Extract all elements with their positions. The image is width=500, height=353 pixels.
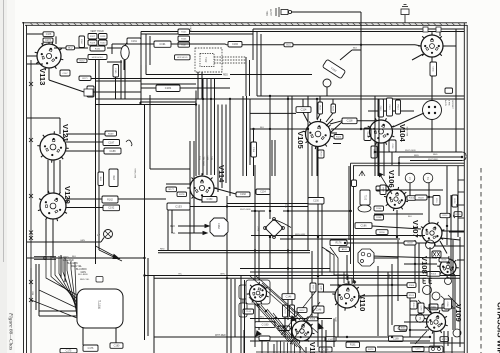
tube socket V101	[418, 32, 446, 60]
tube socket V109	[424, 304, 463, 334]
svg-text:1: 1	[409, 177, 411, 181]
svg-text:T102: T102	[204, 57, 206, 63]
wire v121 to C188	[66, 150, 104, 152]
resistor vert RED	[109, 169, 118, 187]
svg-text:BLU: BLU	[212, 155, 214, 160]
junction ticks left bus more	[29, 82, 33, 302]
svg-text:3: 3	[419, 317, 421, 321]
svg-text:R123: R123	[336, 137, 342, 139]
wire BLK y129 right	[331, 128, 464, 130]
junction dot x361 y44	[360, 44, 362, 46]
control R128 vert hold b	[99, 34, 108, 40]
vert box C157	[442, 304, 449, 311]
resistor R168b	[278, 326, 290, 331]
diagonals v109 area	[418, 300, 432, 314]
wire v104 to plug	[393, 113, 424, 127]
svg-text:C153: C153	[175, 204, 182, 208]
resistor R123	[334, 135, 343, 140]
svg-text:BLK-BRN: BLK-BRN	[78, 274, 88, 276]
resistor small x352	[352, 180, 357, 187]
wire left bus x31	[30, 60, 32, 353]
component A102	[339, 247, 350, 252]
control R107	[178, 42, 190, 47]
svg-text:R157: R157	[300, 310, 306, 312]
wire bundle x211	[210, 78, 212, 175]
wire x375 vert	[374, 96, 376, 176]
svg-text:V106: V106	[387, 170, 396, 188]
svg-text:C161: C161	[131, 40, 137, 43]
svg-text:V105: V105	[296, 131, 305, 150]
resistor vert BLU	[98, 172, 104, 186]
wire x243 vert	[242, 96, 244, 176]
L-bend wires left of V110	[322, 247, 344, 283]
svg-text:C162: C162	[240, 193, 246, 196]
label BLU mid	[284, 43, 293, 47]
wire x415 vert	[414, 240, 416, 283]
svg-text:V113: V113	[38, 68, 47, 85]
wire v104 down b	[383, 143, 385, 176]
capacitor C190	[255, 322, 275, 328]
wire v114 right	[214, 188, 236, 194]
wire x275 pair b	[274, 140, 276, 176]
svg-text:T-104: T-104	[97, 300, 101, 309]
component R173	[366, 347, 376, 352]
svg-text:BLU: BLU	[260, 317, 265, 319]
capacitor C14x vert	[364, 128, 371, 141]
wire y81 upper left	[96, 80, 142, 82]
terminal B+ top	[401, 5, 409, 23]
capacitor C147	[325, 337, 336, 342]
wire v106 down	[396, 210, 398, 237]
top-left corner routing	[140, 32, 142, 66]
svg-text:C169: C169	[393, 338, 399, 341]
svg-text:R159: R159	[412, 303, 414, 308]
transformer T-104	[77, 289, 123, 328]
wire y308 right	[420, 307, 455, 309]
arrow wire v106 pin	[379, 173, 392, 194]
wire c185 down	[115, 77, 117, 99]
wire rect x231	[230, 279, 232, 353]
tube socket V110	[332, 281, 367, 311]
svg-text:RED-YEL: RED-YEL	[80, 279, 90, 281]
svg-text:V121: V121	[61, 124, 70, 143]
wire trunk x292	[291, 140, 293, 310]
wire rect top y102	[140, 101, 196, 103]
svg-text:LIGHT: LIGHT	[270, 8, 273, 16]
capacitor C175	[60, 349, 77, 353]
capacitor C148	[313, 306, 324, 313]
svg-text:R176: R176	[336, 242, 343, 245]
wire y311 t104	[39, 310, 77, 312]
svg-text:BLU: BLU	[389, 273, 391, 278]
wire y268	[240, 268, 330, 270]
wire y256	[372, 256, 437, 258]
wire v121 to R169	[66, 133, 105, 135]
junction box right top	[445, 88, 453, 93]
small box v112 low	[259, 336, 270, 341]
svg-text:RED: RED	[112, 175, 114, 180]
wire x447 vert	[446, 166, 448, 245]
wire trunk x322	[321, 203, 323, 276]
resistor R122 vert	[331, 104, 336, 113]
control R131	[90, 46, 105, 51]
wire bundle x207	[206, 78, 208, 175]
svg-text:R153: R153	[431, 274, 437, 276]
wire y315 right	[410, 314, 429, 316]
wire WHT-GRN y211	[251, 210, 265, 212]
svg-text:C163: C163	[217, 223, 220, 229]
capacitor C185	[113, 65, 119, 78]
wire octagon right	[374, 257, 398, 259]
wire x460 vert	[459, 237, 461, 347]
top bus wire 2	[141, 31, 464, 33]
wire x388	[387, 272, 389, 336]
svg-text:R132: R132	[80, 60, 86, 62]
svg-text:R140: R140	[396, 105, 398, 111]
svg-text:WHT-GRN: WHT-GRN	[240, 209, 251, 211]
wire controls right2	[107, 47, 122, 49]
wire y203 parallel	[227, 203, 308, 205]
wire v113 drop a	[95, 60, 97, 105]
wire y341	[250, 340, 430, 342]
blob component below T103	[358, 205, 371, 212]
resistor R176	[330, 240, 347, 246]
wire y330 right	[410, 329, 429, 331]
wire plug down	[431, 120, 433, 153]
component C164	[394, 326, 407, 332]
svg-text:V120: V120	[63, 186, 72, 204]
wire C182 right	[180, 87, 230, 89]
diagonal bundle to V111	[249, 291, 320, 352]
bus wire y99 long	[96, 98, 465, 100]
right border frame	[463, 23, 465, 353]
resistor R138	[439, 258, 449, 262]
wire y232 right	[449, 231, 464, 233]
tube socket V108	[420, 256, 459, 278]
svg-text:C191: C191	[159, 42, 166, 46]
wire v113 pin up b	[55, 36, 57, 44]
test point circle a	[426, 240, 435, 249]
svg-text:GRN: GRN	[336, 317, 338, 322]
svg-text:C118: C118	[347, 120, 353, 123]
vert box C151	[433, 196, 440, 206]
resistor R166	[228, 42, 242, 48]
capacitor C166	[319, 347, 332, 352]
wire v101 top drop	[439, 32, 441, 37]
svg-text:WHT-BLU: WHT-BLU	[135, 168, 137, 178]
test point circle v109 left	[416, 314, 425, 323]
svg-text:WHT: WHT	[258, 225, 260, 231]
tube socket V120	[38, 186, 72, 221]
wire v121 pin a down	[47, 160, 49, 193]
wire y285 r164	[330, 284, 407, 286]
svg-text:C148: C148	[316, 309, 322, 311]
svg-text:A102: A102	[342, 248, 348, 251]
wire v105 arrow ne	[326, 119, 333, 126]
junction dots round2	[143, 98, 448, 331]
wire y260 right	[457, 259, 464, 261]
vert box C158	[444, 299, 452, 309]
resistor R148	[374, 215, 384, 220]
transformer T102 dashed inner	[200, 54, 214, 67]
capacitor C153	[167, 203, 190, 210]
wire red arrow	[178, 225, 208, 227]
wire v113 pin up a	[42, 42, 44, 44]
wire x172 below c153	[171, 210, 173, 233]
wire BLK long	[27, 257, 144, 259]
svg-text:BRN: BRN	[414, 155, 419, 157]
wire y347 right	[377, 346, 440, 348]
resistor R157	[297, 308, 307, 313]
wire rect x235	[234, 279, 236, 337]
wire C182 left	[141, 87, 156, 89]
sub-chassis box left side	[350, 163, 352, 264]
control HOR HOLD	[88, 55, 107, 60]
svg-text:C188: C188	[110, 150, 117, 153]
svg-text:C185: C185	[114, 68, 116, 74]
pilot lamp LP	[104, 230, 113, 239]
outline bottom RED	[146, 74, 222, 76]
wire r121 to socket	[317, 114, 320, 120]
vert box R167	[310, 283, 316, 292]
pin box v104 b	[389, 140, 396, 152]
capacitor C186	[355, 223, 372, 229]
resistor R145	[376, 186, 389, 191]
plug 4-pin molded socket	[423, 101, 442, 120]
transformer T102 dashed outer	[195, 48, 222, 72]
capacitor C168	[43, 32, 54, 37]
capacitor C188	[104, 148, 121, 154]
control R106	[178, 36, 190, 41]
bus double y275	[145, 275, 461, 277]
wire dial light horizontal	[291, 11, 361, 13]
svg-text:BRN-GRN: BRN-GRN	[295, 234, 306, 236]
wire v107 to v108	[440, 241, 447, 254]
wire h y169	[150, 168, 190, 170]
wire v113 to border	[27, 55, 37, 57]
wire v121 pin c down	[59, 160, 61, 193]
x marks in shield	[433, 252, 436, 257]
junction dots main	[143, 95, 431, 338]
label BLU wire	[66, 46, 75, 50]
wire y239 parallel	[280, 238, 400, 240]
svg-text:C145: C145	[319, 286, 321, 291]
wire x334	[333, 319, 335, 348]
resistor R150	[407, 196, 416, 201]
wire left x36	[35, 264, 37, 310]
wire v110 up	[346, 255, 348, 280]
wire v105 top to bus	[316, 99, 318, 119]
wire bundle x218	[217, 105, 219, 193]
wire c156 down	[253, 157, 255, 176]
svg-text:BLU: BLU	[286, 45, 291, 47]
wire x292 up	[291, 96, 293, 140]
tube socket V107	[411, 220, 444, 245]
wire v114 left a	[166, 183, 190, 185]
svg-text:R105: R105	[181, 32, 187, 34]
svg-text:BLK: BLK	[353, 48, 358, 50]
svg-text:R150: R150	[409, 198, 415, 200]
wire curve from diamond	[274, 220, 291, 228]
wire x190 low	[189, 180, 191, 251]
resistor R149	[415, 195, 427, 200]
component R161	[346, 342, 360, 348]
svg-text:R129: R129	[90, 42, 96, 44]
svg-text:C156: C156	[252, 147, 254, 153]
shield box with X	[432, 251, 441, 258]
wire rect x227	[226, 196, 228, 353]
svg-text:R173: R173	[368, 349, 374, 351]
svg-text:C175: C175	[66, 350, 72, 353]
capacitor C182	[156, 85, 180, 92]
wire v104 down	[377, 143, 379, 176]
control HOR HOLD 2	[175, 55, 191, 60]
resistor R132	[77, 59, 87, 63]
wire left bus y118	[27, 117, 60, 119]
wire x392	[391, 264, 393, 325]
svg-text:C150: C150	[207, 198, 213, 201]
wire GRN lamp	[27, 241, 101, 243]
outline bottom cont	[230, 74, 312, 76]
pin circle no2	[423, 173, 433, 183]
wire x458 right col	[457, 166, 459, 237]
wire BLU to tube top right	[293, 44, 415, 46]
wire y96 bus	[257, 95, 464, 97]
svg-text:R156: R156	[379, 232, 385, 234]
svg-text:R131: R131	[95, 48, 101, 50]
wire y198 mid	[118, 198, 166, 200]
wire trunk x318	[317, 147, 319, 347]
wire y78 upper left	[91, 78, 196, 80]
svg-text:R127: R127	[90, 36, 96, 38]
wire r124 left	[333, 143, 341, 145]
wire zigzag to R166	[222, 43, 228, 46]
wire y243 r176	[347, 242, 426, 244]
svg-text:V108: V108	[420, 256, 429, 274]
capacitor C162	[236, 192, 250, 197]
svg-text:C119: C119	[379, 106, 381, 112]
tube socket V113	[35, 42, 64, 86]
wire f102 up	[340, 50, 352, 60]
svg-text:R146: R146	[376, 208, 382, 210]
wire v107 to border b	[441, 238, 460, 240]
svg-text:WHT-RED: WHT-RED	[215, 335, 226, 337]
svg-text:R130: R130	[100, 42, 106, 44]
svg-text:Figure 66—Chas: Figure 66—Chas	[8, 312, 14, 350]
wire f102 h	[352, 49, 361, 51]
vert box R147b	[380, 185, 386, 195]
test point circle b	[423, 286, 432, 295]
junction box lower V113	[84, 89, 93, 96]
bus RED y157	[399, 156, 462, 158]
svg-text:HOR HOLD: HOR HOLD	[177, 57, 188, 59]
wire rect x148	[147, 258, 149, 336]
resistor R121 vert	[318, 102, 323, 114]
svg-text:CHASSIS WIRI: CHASSIS WIRI	[496, 302, 500, 353]
vert box R170	[283, 305, 288, 317]
svg-text:V111: V111	[308, 342, 317, 353]
svg-text:HOR HOLD: HOR HOLD	[92, 57, 104, 59]
control R130	[99, 40, 108, 45]
tube socket V105	[296, 119, 333, 150]
vert box R172	[290, 305, 295, 317]
test point circle d	[445, 278, 452, 285]
resistor R171	[79, 76, 91, 81]
octagon can component	[358, 249, 374, 266]
coil hook symbol	[126, 140, 132, 146]
svg-text:RED: RED	[170, 226, 175, 228]
wire c118 left stub	[330, 121, 342, 124]
capacitor C187	[103, 140, 120, 146]
wire x190 red-grn	[189, 141, 191, 180]
fuse holder circle	[323, 79, 331, 87]
tube socket V106	[384, 170, 408, 211]
component BCT6	[102, 196, 118, 203]
wire trunk x259	[258, 211, 260, 330]
small circle v108 bottom	[432, 292, 440, 300]
ladder ties right column	[458, 179, 464, 181]
wire v101 right	[443, 45, 456, 47]
svg-text:C144: C144	[246, 311, 252, 313]
svg-text:BLK: BLK	[260, 127, 265, 129]
outline left v2	[145, 65, 147, 75]
wire GRN y211 right	[283, 210, 352, 212]
svg-text:R128: R128	[100, 36, 106, 38]
svg-text:C-190: C-190	[262, 323, 269, 326]
wire y64 left	[27, 63, 43, 65]
wire y84	[141, 83, 196, 85]
wire y343 right	[410, 342, 464, 344]
dial light terminal	[276, 7, 292, 17]
wire v121 top stub	[59, 118, 61, 134]
capacitor C176	[83, 345, 98, 351]
small antenna symbol in box	[359, 171, 365, 176]
wire x194	[193, 141, 195, 180]
wire pot down	[123, 60, 125, 70]
resistor R169	[105, 131, 117, 136]
coil T103 vert	[360, 190, 370, 205]
wire v108 left	[404, 263, 437, 265]
wire v113 drop b	[98, 60, 100, 105]
control R105	[178, 29, 190, 35]
wire junctionbox right	[93, 91, 141, 93]
capacitor C150b	[308, 198, 324, 205]
resistor R177	[166, 187, 177, 192]
component C167b	[60, 70, 70, 76]
wire y190 right	[376, 189, 443, 191]
svg-text:R178: R178	[179, 194, 185, 196]
tube socket V112 small	[247, 282, 269, 304]
svg-text:C171: C171	[416, 349, 422, 351]
svg-text:R148: R148	[376, 217, 382, 219]
wire v105 pin down b	[311, 146, 313, 176]
wire x398 down	[397, 240, 399, 301]
svg-text:SOCKET: SOCKET	[451, 100, 453, 110]
control R129	[88, 40, 97, 45]
wire y316 t104	[39, 315, 77, 317]
resistor R153	[427, 272, 440, 277]
svg-text:C180: C180	[114, 344, 120, 347]
svg-text:V110: V110	[358, 294, 367, 311]
svg-text:R161: R161	[350, 344, 356, 347]
svg-text:R149: R149	[418, 197, 424, 199]
wire t102 drop a	[197, 72, 199, 99]
svg-text:R162: R162	[107, 198, 113, 201]
wire x244b bottom	[244, 280, 246, 353]
svg-text:C186: C186	[361, 224, 368, 227]
vert box C145	[318, 284, 324, 292]
svg-text:R106: R106	[181, 38, 187, 40]
